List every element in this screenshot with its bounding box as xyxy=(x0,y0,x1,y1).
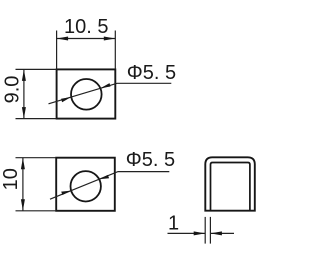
part 2 outline (bottom square) xyxy=(56,158,115,211)
dim 10.5 arrow right xyxy=(104,37,116,41)
dim 1 arrow right (points left) xyxy=(210,231,222,235)
leader arrow upper-right part 1 xyxy=(100,83,110,88)
svg-text:Φ5. 5: Φ5. 5 xyxy=(127,62,176,84)
clip outer outline (side view, rounded top) xyxy=(205,157,255,210)
leader arrow upper-right part 2 xyxy=(99,175,109,179)
dim 1 tail line left xyxy=(168,232,206,234)
dim 9.0 arrow bottom xyxy=(22,107,26,119)
dim 10 arrow bottom xyxy=(21,199,25,211)
hole circle of part 1 xyxy=(71,79,102,110)
dim 10 extension line top xyxy=(16,157,57,159)
dim 10 dimension line xyxy=(22,158,24,211)
dim 9.0 extension line top xyxy=(16,68,57,70)
clip inner cavity outline xyxy=(211,163,250,211)
hole circle of part 2 xyxy=(71,171,101,201)
dim 1 extension line right xyxy=(209,217,211,244)
svg-text:10. 5: 10. 5 xyxy=(64,16,108,38)
dim 10 extension line bottom xyxy=(16,210,57,212)
svg-text:1: 1 xyxy=(168,213,179,235)
dim 1 arrow left (points right) xyxy=(194,231,206,235)
part 1 outline (top square) xyxy=(57,69,116,118)
dim 1 tail line right xyxy=(210,232,234,234)
svg-text:Φ5. 5: Φ5. 5 xyxy=(126,149,175,171)
leader arrow lower-left part 1 xyxy=(61,97,71,102)
dim 9.0 dimension line xyxy=(23,69,25,118)
dim 9.0 extension line bottom xyxy=(16,118,57,120)
dim 10.5 extension line left xyxy=(56,31,58,70)
dim 10 arrow top xyxy=(21,158,25,170)
svg-text:10: 10 xyxy=(0,168,22,190)
dim 9.0 arrow top xyxy=(22,69,26,81)
dim 10.5 extension line right xyxy=(114,31,116,70)
dim 10.5 arrow left xyxy=(57,37,69,41)
leader line of hole part 1 xyxy=(49,83,172,104)
leader line of hole part 2 xyxy=(50,172,169,200)
dim 10.5 dimension line xyxy=(57,38,116,40)
dim 1 extension line left xyxy=(204,217,206,244)
leader arrow lower-left part 2 xyxy=(61,191,71,195)
svg-text:9.0: 9.0 xyxy=(2,76,24,104)
